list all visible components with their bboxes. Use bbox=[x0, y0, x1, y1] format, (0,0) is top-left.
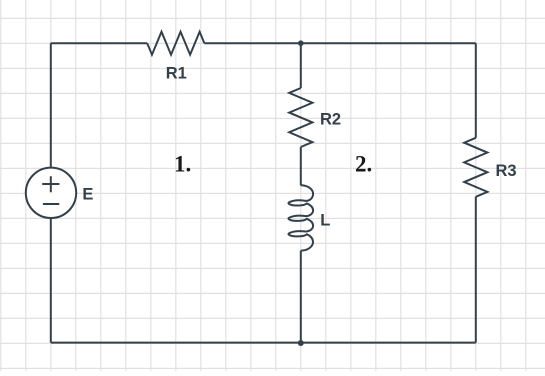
svg-text:L: L bbox=[320, 211, 330, 229]
svg-text:R3: R3 bbox=[496, 162, 517, 180]
svg-text:R2: R2 bbox=[320, 111, 341, 129]
svg-text:E: E bbox=[82, 185, 93, 203]
svg-text:R1: R1 bbox=[166, 65, 187, 83]
svg-text:1.: 1. bbox=[174, 152, 191, 177]
svg-text:2.: 2. bbox=[355, 152, 372, 177]
